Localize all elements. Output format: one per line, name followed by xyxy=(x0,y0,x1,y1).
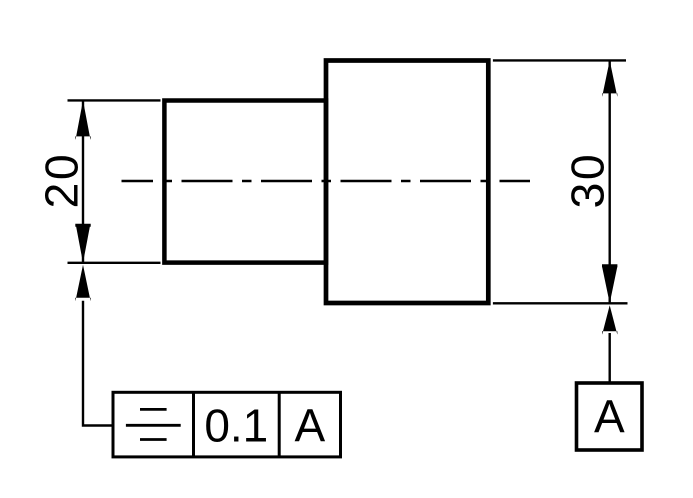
arrowhead 30 bottom (down) xyxy=(602,264,617,303)
datum leader arrowhead (up, touching lower extension line) xyxy=(602,305,617,334)
datum feature box A xyxy=(577,383,643,450)
svg-text:A: A xyxy=(294,400,325,452)
extension line bottom-right (30 dim) xyxy=(493,302,628,304)
arrowhead 20 top (up) xyxy=(75,100,90,139)
svg-text:A: A xyxy=(594,391,625,443)
svg-text:0.1: 0.1 xyxy=(204,400,268,452)
svg-text:30: 30 xyxy=(562,152,614,209)
leader arrowhead (up, touching lower extension line) xyxy=(75,265,90,301)
arrowhead 20 bottom (down) xyxy=(75,224,90,263)
extension line top-left (20 dim) xyxy=(68,99,161,101)
dimension line 20 (vertical) xyxy=(82,100,84,262)
extension line top-right (30 dim) xyxy=(493,59,626,61)
arrowhead 30 top (up) xyxy=(602,60,617,96)
symmetry symbol (three horizontal lines) xyxy=(126,409,181,439)
large cylinder (right step, Ø30) xyxy=(326,61,488,304)
svg-text:20: 20 xyxy=(36,152,88,209)
datum leader line (to datum box A) xyxy=(609,333,611,384)
centerline (axis, dash-dot) xyxy=(122,180,531,183)
feature control frame outline xyxy=(113,392,341,457)
feature control frame divider 1 xyxy=(192,392,195,457)
dimension line 30 (vertical) xyxy=(609,60,611,303)
leader line from feature control frame (up-left) xyxy=(83,301,113,426)
extension line bottom-left (20 dim) xyxy=(68,262,161,264)
feature control frame divider 2 xyxy=(278,392,281,457)
small cylinder (left step, Ø20) xyxy=(164,101,326,263)
